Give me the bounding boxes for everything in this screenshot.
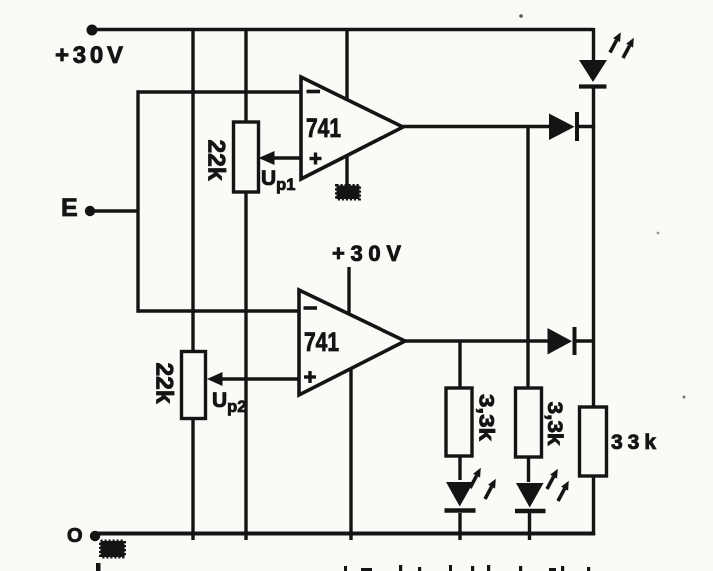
- wire: +30V top rail: [92, 28, 594, 32]
- resistor R4 3,3k body: [516, 388, 542, 457]
- wire: U1 inverting input: [137, 90, 302, 93]
- wire: R4 to LED D5: [527, 456, 530, 482]
- P2 wiper arrow (to U2 + input): [207, 372, 299, 386]
- svg-text:O: O: [67, 525, 83, 547]
- wire: rail corner down to LED D3 anode: [592, 28, 595, 61]
- LED D4 triangle: [446, 482, 474, 507]
- wire: +30V supply stub to op-amp U1: [345, 28, 348, 100]
- svg-text:3,3k: 3,3k: [543, 402, 567, 446]
- wire: branch down to resistor R3: [458, 341, 461, 389]
- svg-text:741: 741: [306, 113, 341, 143]
- svg-text:E: E: [61, 194, 78, 222]
- paper speck: [657, 232, 660, 235]
- wire: LED D5 to 0V rail: [528, 513, 531, 540]
- node: E terminal dot: [85, 206, 95, 216]
- svg-text:22k: 22k: [151, 363, 178, 405]
- svg-text:33k: 33k: [611, 431, 656, 454]
- svg-text:3,3k: 3,3k: [475, 394, 499, 441]
- LED D3 cathode bar: [579, 84, 607, 88]
- svg-text:22k: 22k: [203, 140, 230, 182]
- diode D2 triangle: [548, 328, 573, 355]
- P1 wiper arrow (to U1 + input): [259, 151, 302, 165]
- wire: supply branch down to pot P1: [244, 28, 247, 123]
- U2 non-inverting input symbol: [304, 371, 316, 383]
- wire: E input lead: [90, 209, 139, 212]
- wire: LED D4 to 0V rail: [458, 513, 461, 540]
- op-amp U1 triangle: [301, 77, 403, 179]
- resistor R3 3,3k body: [446, 388, 472, 456]
- wire: +30V stub to op-amp U2: [347, 267, 350, 314]
- wire: supply branch down to pot P2: [191, 28, 194, 352]
- diode D1 triangle: [549, 114, 575, 141]
- paper speck: [683, 396, 686, 399]
- caption text fragments (cropped at page bottom edge): [96, 563, 590, 571]
- resistor R5 33k body: [580, 407, 607, 476]
- LED D3 (top) triangle: [579, 60, 607, 82]
- node: +30V terminal dot: [87, 25, 98, 36]
- diode D2 cathode bar: [573, 327, 577, 355]
- paper speck: [519, 14, 523, 18]
- wire: U2 inverting input: [137, 309, 300, 312]
- wire: ground stub below U1: [345, 155, 348, 186]
- wire: pot P1 lower leg to 0V rail: [244, 191, 247, 540]
- LED D5 cathode bar: [515, 509, 546, 514]
- svg-text:741: 741: [304, 327, 339, 357]
- wire: input bus vertical (E to both inverting inputs): [136, 90, 139, 312]
- LED D4 light arrows: [470, 468, 496, 499]
- wire: U2 output: [405, 339, 549, 342]
- LED D5 light arrows: [547, 469, 569, 501]
- potentiometer P2 22k body: [182, 352, 206, 419]
- wire: pot P2 lower leg to 0V rail: [191, 418, 194, 540]
- wire: right column from D1 junction down to resistor R5: [592, 125, 595, 408]
- svg-text:+30V: +30V: [55, 42, 123, 69]
- diode D1 cathode bar: [575, 112, 579, 141]
- U2 inverting input symbol: [304, 306, 318, 310]
- U1 inverting input symbol: [307, 90, 321, 94]
- op-amp U2 triangle: [299, 290, 405, 395]
- wire: LED D3 cathode down to diode D1 junction: [592, 88, 595, 128]
- wire: R5 to 0V rail: [592, 475, 595, 535]
- wire: D1 cathode to right column: [578, 125, 595, 128]
- wire: 0V bottom rail: [93, 532, 595, 536]
- ground symbol at O: [101, 541, 125, 557]
- LED D4 cathode bar: [445, 508, 476, 513]
- U1 non-inverting input symbol: [310, 153, 322, 165]
- LED D3 light arrows: [610, 32, 634, 58]
- wire: D2 cathode to right column: [576, 339, 595, 342]
- ground block below U1: [337, 186, 360, 200]
- potentiometer P1 22k body: [234, 122, 259, 192]
- LED D5 triangle: [516, 483, 544, 508]
- node: O terminal dot: [90, 531, 100, 541]
- wire: U2 ground leg to 0V rail: [349, 368, 352, 540]
- wire: R3 to LED D4: [458, 455, 461, 480]
- wire: U1 output branch down to resistor R4: [526, 127, 529, 390]
- wire: U1 output: [403, 125, 550, 128]
